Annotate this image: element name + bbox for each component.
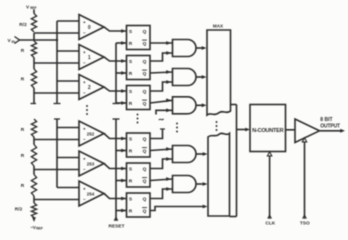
node tap4 wire to comparator 252 minus xyxy=(34,139,79,141)
wire bus to comparator 254 plus xyxy=(57,187,79,189)
wire from below to AND3 xyxy=(156,110,173,114)
wire latch254 Qbar direct to MAX xyxy=(150,207,205,211)
svg-text:TSO: TSO xyxy=(300,221,310,227)
MAX block upper part xyxy=(207,30,231,115)
svg-text:R: R xyxy=(21,77,25,83)
svg-text:R: R xyxy=(129,41,133,47)
svg-text:Q: Q xyxy=(143,166,147,172)
AND gate 2 xyxy=(173,69,197,86)
counter block xyxy=(250,105,286,152)
svg-text:−: − xyxy=(83,91,86,96)
wire latch252 Q stub up xyxy=(150,129,163,139)
svg-text:REF: REF xyxy=(30,6,36,10)
svg-text:+: + xyxy=(83,20,86,25)
comparator 253 xyxy=(79,151,104,176)
svg-text:Q: Q xyxy=(143,59,147,65)
svg-text:Q: Q xyxy=(143,179,147,185)
wire counter to buffer xyxy=(286,129,296,131)
AND gate 5 xyxy=(173,176,197,193)
wire comparator 252 output to latch S xyxy=(104,134,127,139)
node tap2 wire to comparator 1 minus xyxy=(34,62,79,64)
resistor R/2 bottom xyxy=(31,203,36,218)
dots comparator column xyxy=(86,105,88,107)
wire ladder tap1-R xyxy=(33,33,35,41)
wire reset to latch 2 R xyxy=(116,102,127,104)
resistor R (bottom 1) xyxy=(31,119,36,137)
svg-text:Q: Q xyxy=(143,209,147,215)
wire MAX upper output xyxy=(231,104,237,106)
resistor R (bottom 3) xyxy=(31,175,36,197)
wire latch1 Qbar to AND2 xyxy=(150,72,173,73)
svg-text:Q: Q xyxy=(143,196,147,202)
break squiggle between columns xyxy=(159,119,164,120)
comparator 252 xyxy=(79,121,104,146)
svg-text:Q: Q xyxy=(143,41,147,47)
output buffer amplifier xyxy=(295,119,320,143)
svg-text:−: − xyxy=(83,61,86,66)
resistor R/2 top xyxy=(31,14,36,33)
wire comparator 1 output to latch S xyxy=(104,57,127,61)
wire latch253 Qbar to AND5 xyxy=(150,179,173,181)
wire to counter input xyxy=(237,129,248,131)
wire comparator 2 output to latch S xyxy=(104,87,127,91)
svg-text:R: R xyxy=(21,153,25,159)
AND gate 3 xyxy=(173,97,197,114)
svg-text:Q: Q xyxy=(143,71,147,77)
wire bus to comparator 2 plus xyxy=(57,80,79,82)
dots AND column xyxy=(176,123,178,125)
svg-text:R: R xyxy=(129,208,133,214)
svg-text:R/2: R/2 xyxy=(19,22,27,28)
svg-text:R: R xyxy=(21,48,25,54)
svg-text:S: S xyxy=(129,136,133,142)
comparator 1 xyxy=(79,45,104,70)
VIN input chevron xyxy=(15,37,20,44)
svg-text:0: 0 xyxy=(88,25,91,31)
svg-text:S: S xyxy=(129,166,133,172)
svg-text:R: R xyxy=(129,178,133,184)
TSO wire xyxy=(304,142,306,219)
AND gate 1 xyxy=(173,40,197,57)
svg-text:+: + xyxy=(83,80,86,85)
SR latch 0 xyxy=(127,26,151,50)
wire reset to latch 252 R xyxy=(116,150,127,152)
svg-text:OUTPUT: OUTPUT xyxy=(320,123,340,129)
svg-text:+: + xyxy=(83,50,86,55)
svg-text:S: S xyxy=(129,196,133,202)
wire comparator 254 output to latch S xyxy=(104,194,127,199)
svg-text:Q: Q xyxy=(143,149,147,155)
wire reset to latch 1 R xyxy=(116,72,127,74)
RESET bus vertical top xyxy=(115,43,117,104)
svg-text:1: 1 xyxy=(88,55,91,61)
svg-text:S: S xyxy=(129,89,133,95)
svg-text:8 BIT: 8 BIT xyxy=(320,117,332,123)
svg-text:R: R xyxy=(129,148,133,154)
svg-text:S: S xyxy=(129,29,133,35)
SR latch 253 xyxy=(127,163,151,187)
MAX block lower part xyxy=(208,133,230,216)
wire Vref to R/2 xyxy=(33,10,35,14)
wire bus to comparator 253 plus xyxy=(57,157,79,159)
svg-text:Q: Q xyxy=(143,101,147,107)
wire latch252 Qbar to AND4 xyxy=(150,149,173,151)
RESET bus vertical bottom xyxy=(113,118,120,120)
wire reset to latch 0 R xyxy=(116,42,127,44)
output wire with arrow xyxy=(320,130,342,132)
wire comparator 253 output to latch S xyxy=(104,164,127,169)
svg-text:−: − xyxy=(83,167,86,172)
SR latch 252 xyxy=(127,133,151,157)
wire latch2 Qbar to AND3 xyxy=(150,100,173,103)
svg-text:N-COUNTER: N-COUNTER xyxy=(252,128,284,134)
svg-text:Q: Q xyxy=(143,136,147,142)
svg-text:R: R xyxy=(129,71,133,77)
wire latch1 Q to AND1 xyxy=(150,53,173,61)
wire MAX output bus vertical xyxy=(236,105,238,217)
svg-text:253: 253 xyxy=(87,161,95,166)
AND gate 4 xyxy=(173,146,197,163)
resistor R (bottom 2) xyxy=(31,145,36,167)
svg-text:2: 2 xyxy=(88,85,91,91)
svg-text:−: − xyxy=(83,197,86,202)
wire latch2 Q to AND2 xyxy=(150,82,173,91)
svg-text:+: + xyxy=(83,186,86,191)
svg-text:MAX: MAX xyxy=(213,24,224,29)
wire AND1 to MAX xyxy=(196,47,204,49)
wire AND4 to MAX xyxy=(196,153,205,155)
wire AND3 to MAX xyxy=(196,104,204,106)
-VREF terminal arrow xyxy=(33,218,35,220)
svg-text:Q: Q xyxy=(143,29,147,35)
CLK wire xyxy=(269,156,271,219)
node tap6 wire to comparator 254 minus xyxy=(34,199,79,201)
node tap5 wire to comparator 253 minus xyxy=(34,169,79,171)
svg-text:REF: REF xyxy=(36,227,43,231)
resistor R (top 1) xyxy=(31,41,36,58)
wire reset to latch 254 R xyxy=(116,210,127,212)
node tap1 wire to comparator 0 minus xyxy=(34,32,79,34)
wire bus to comparator 0 plus xyxy=(57,20,79,22)
SR latch 1 xyxy=(127,56,151,80)
wire MAX lower output xyxy=(230,216,237,218)
dots MAX column xyxy=(216,121,218,123)
svg-text:RESET: RESET xyxy=(109,224,125,230)
svg-text:S: S xyxy=(129,59,133,65)
svg-text:R: R xyxy=(129,101,133,107)
svg-text:−: − xyxy=(83,137,86,142)
svg-text:+: + xyxy=(83,126,86,131)
SR latch 254 xyxy=(127,193,151,217)
wire latch0 Qbar to AND1 xyxy=(150,42,173,44)
svg-text:+: + xyxy=(83,156,86,161)
ladder break stub top xyxy=(33,93,35,104)
node tap3 wire to comparator 2 minus xyxy=(34,92,79,94)
VIN bus vertical top xyxy=(56,21,58,104)
svg-text:R: R xyxy=(21,127,25,133)
wire reset to latch 253 R xyxy=(116,180,127,182)
SR latch 2 xyxy=(127,86,151,110)
svg-text:−: − xyxy=(83,31,86,36)
comparator 2 xyxy=(79,75,104,100)
wire comparator 0 output to latch S xyxy=(104,27,127,31)
comparator 0 xyxy=(79,15,104,40)
wire R to tap2 xyxy=(33,58,35,64)
wire latch253 Q to AND4 xyxy=(150,159,173,169)
wire bus to comparator 252 plus xyxy=(57,127,79,129)
svg-text:254: 254 xyxy=(87,191,95,196)
VIN bus vertical bottom xyxy=(54,118,60,120)
wire AND2 to MAX xyxy=(196,76,204,78)
wire bus to comparator 1 plus xyxy=(57,50,79,52)
svg-text:252: 252 xyxy=(87,131,95,136)
junction VIN-bus xyxy=(56,39,58,41)
svg-text:R/2: R/2 xyxy=(15,207,23,213)
svg-text:Q: Q xyxy=(143,89,147,95)
wire latch254 Q to AND5 xyxy=(150,189,173,199)
wire VIN to bus xyxy=(20,39,58,41)
svg-text:R: R xyxy=(21,183,25,189)
wire AND5 to MAX xyxy=(196,183,205,185)
dots latch column xyxy=(137,114,139,116)
svg-text:CLK: CLK xyxy=(265,221,275,227)
comparator 254 xyxy=(79,181,104,206)
resistor R (top 2) xyxy=(31,69,36,88)
